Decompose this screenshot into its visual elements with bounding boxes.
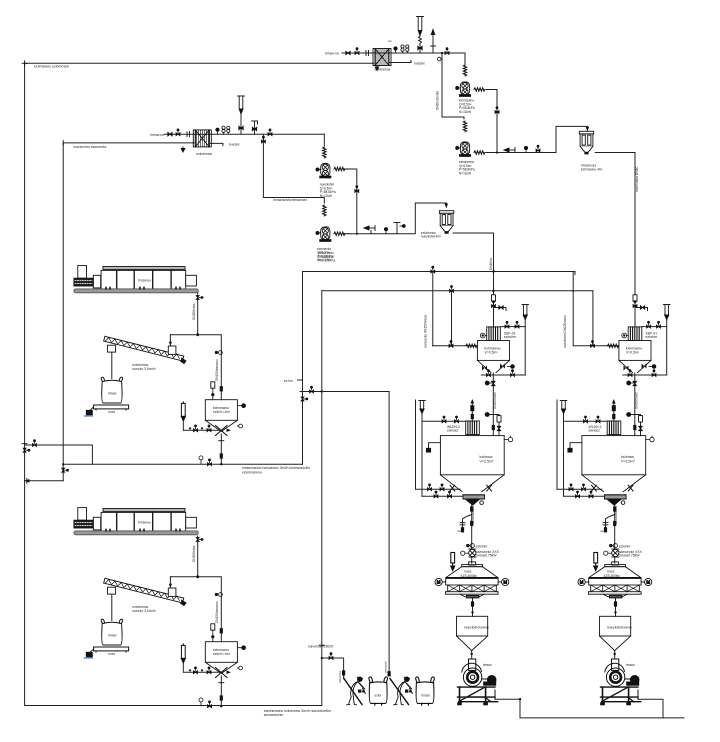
sifter S2, hopper and packer K2	[578, 505, 652, 705]
wire P2 suction bypass	[442, 53, 464, 119]
gauge PI2	[524, 145, 540, 152]
junction node conveyor drop B	[196, 575, 199, 578]
flex joint PB discharge	[334, 232, 350, 235]
rotameter FI1	[417, 17, 424, 54]
wire dump station branch 2	[388, 392, 390, 675]
wire F1 outlet	[595, 153, 635, 327]
arrow into F1	[586, 127, 590, 132]
pump PB	[316, 205, 331, 241]
rotated pipe label chute 2	[383, 661, 387, 673]
wire HX1 outlet stub	[390, 62, 411, 64]
wire F2 outlet down to line B	[453, 233, 494, 291]
label pump PB line	[273, 198, 307, 202]
label E1	[375, 68, 391, 72]
valve on line B at M1 drop	[450, 286, 454, 293]
valve V6 on E2 inlet	[176, 129, 180, 136]
instrument on P2 bypass	[437, 57, 442, 61]
hand valve marks worker 2	[405, 690, 412, 693]
label near line A riser	[284, 379, 303, 383]
wire station B distribution	[170, 577, 221, 642]
junction node header start	[62, 463, 64, 465]
pump P1	[456, 65, 471, 96]
wire HX1 process line	[342, 52, 465, 54]
rotated pipe label F2 outlet	[489, 257, 493, 270]
svg-text:ezkxhmswnu: ezkxhmswnu	[242, 470, 262, 474]
gauge PI3	[216, 128, 219, 134]
label main header	[34, 65, 69, 69]
svg-text:kx·hm: kx·hm	[284, 379, 293, 383]
worker 2	[394, 677, 413, 705]
svg-text:hmsw-nu: hmsw-nu	[150, 133, 164, 137]
wire HX2 outlet stub	[210, 143, 223, 145]
flange pair E1	[366, 51, 369, 56]
wire drop line A to premixer M2	[572, 272, 574, 346]
big bag 1	[369, 677, 388, 705]
wire hopper H2 discharge	[220, 676, 222, 706]
valve on station cross line	[310, 386, 314, 393]
svg-text:PN: 1.0MPa: PN: 1.0MPa	[318, 259, 335, 263]
label pump P1	[459, 99, 475, 114]
valve V9	[268, 129, 272, 136]
svg-text:ezkxhmswnu ezkxhmsw 3m³/h nuez: ezkxhmswnu ezkxhmsw 3m³/h nuezkxhm8m	[264, 709, 331, 713]
tick label on line B down-pipe	[308, 645, 334, 649]
svg-text:hmsw: hmsw	[421, 694, 430, 698]
label pump P2	[459, 160, 475, 175]
corner tick main header	[22, 61, 27, 66]
tick on left border	[22, 443, 27, 445]
label pump PB	[317, 247, 333, 262]
svg-text:hmswnuezkxhmswnuez: hmswnuezkxhmswnuez	[273, 198, 307, 202]
wire station A cross line	[300, 391, 389, 393]
pump P2	[456, 121, 471, 156]
wire HX2 process line	[164, 133, 324, 135]
svg-text:DN65ezkxhm: DN65ezkxhm	[436, 91, 440, 110]
premixer M1 and mixer tank T1	[416, 295, 529, 505]
wire drop to pump PA	[323, 134, 325, 146]
svg-text:nuezkxhm DN150swnu: nuezkxhm DN150swnu	[563, 315, 567, 348]
wire line B	[322, 290, 593, 292]
instrument V11	[394, 223, 405, 234]
wire drop to pump P1	[464, 53, 466, 65]
heat exchanger E1	[373, 49, 391, 66]
svg-text:swnuez2: swnuez2	[383, 661, 387, 673]
junction node PA/PB header	[356, 233, 358, 235]
wire packer K1 outlet	[495, 699, 684, 718]
valve on down-pipe x63	[62, 468, 69, 472]
corner tick second header	[62, 140, 64, 145]
dosing station B	[74, 508, 246, 708]
dump chute valve 2	[388, 671, 391, 676]
junction node line A	[492, 270, 494, 272]
svg-text:ezkxhmsw: ezkxhmsw	[375, 68, 391, 72]
sifter S1, hopper and packer K1	[435, 505, 509, 705]
wire line B left down-pipe	[321, 291, 323, 706]
junction node line B	[492, 290, 494, 292]
valve on line A at M1 drop	[431, 266, 435, 273]
wire line A left riser	[302, 272, 304, 465]
label bottom header	[264, 709, 331, 717]
wire station A distribution	[170, 335, 221, 400]
bag filter F2	[439, 211, 453, 234]
drain tick under E1	[375, 66, 379, 71]
wire HX2 supply header	[63, 142, 194, 144]
heat exchanger E2	[193, 130, 211, 147]
flange pair E2	[187, 132, 190, 137]
svg-text:swnuezkxhm: swnuezkxhm	[264, 713, 284, 717]
svg-text:N=11kW: N=11kW	[459, 110, 471, 114]
gauge PI1	[394, 47, 397, 53]
wire drop line A to premixer M1	[432, 272, 434, 346]
svg-text:N=11kW: N=11kW	[320, 194, 332, 198]
rotated pipe label M1 drop	[424, 314, 428, 348]
dump chute valve 1	[342, 670, 345, 675]
dump station branch valve	[329, 653, 333, 660]
vent line with up arrow	[431, 30, 436, 54]
svg-text:nuezkx: nuezkx	[414, 62, 425, 66]
wire hopper H1 discharge	[220, 434, 222, 464]
worker 1	[347, 677, 366, 705]
drain tick under E2	[181, 147, 185, 152]
dump chute 2	[390, 679, 409, 705]
valve V3 near P1 drop	[445, 48, 449, 55]
wire P1 discharge riser	[486, 90, 497, 153]
svg-text:swnuezkx DN150hmsw: swnuezkx DN150hmsw	[424, 314, 428, 348]
svg-text:N=11kW: N=11kW	[459, 171, 471, 175]
wire conveyor C1 discharge	[197, 293, 199, 335]
svg-text:nuezkxhm4m²: nuezkxhm4m²	[421, 235, 441, 239]
junction node line B at M2 drop	[572, 290, 574, 292]
wire pump PB suction branch	[263, 134, 324, 203]
wire border loop bottom	[25, 480, 64, 482]
valve V2 on E1 inlet	[355, 48, 359, 55]
valve V10 on PA riser	[355, 186, 359, 193]
hand valve marks worker 1	[358, 690, 365, 693]
valve on left border	[23, 448, 30, 452]
wire long dosing header	[63, 463, 302, 465]
flex joint P1 discharge	[474, 88, 485, 91]
rotated pipe label M2 drop	[563, 315, 567, 348]
wire conveyor C2 discharge	[197, 536, 199, 577]
check valve CV1	[504, 148, 515, 153]
wire border loop top	[25, 445, 93, 464]
rotated pipe label pump bypass	[436, 91, 440, 110]
flex joint P2 discharge	[474, 151, 485, 154]
flex joint PA discharge	[334, 167, 350, 170]
valve V4 on P1 riser	[495, 107, 499, 114]
valve on line A riser	[301, 397, 308, 401]
valve on supply header	[33, 440, 37, 447]
junction node conveyor drop	[196, 333, 199, 336]
instrument cluster TI2	[222, 126, 230, 134]
wire drop line B to premixer M2	[592, 291, 594, 346]
label E2	[196, 152, 212, 156]
label E1 inlet	[325, 52, 339, 56]
check valve CV2	[364, 226, 375, 234]
svg-text:nuezkxhm swnuezkx: nuezkxhm swnuezkx	[73, 145, 106, 149]
junction node packer header	[519, 698, 521, 700]
valve V5 on E2 inlet	[168, 132, 172, 136]
label filter F2	[421, 231, 441, 239]
wire left border supply down-pipe	[25, 63, 322, 705]
rotated pipe label F1 outlet	[635, 166, 639, 192]
arrow into F2	[445, 204, 449, 209]
premixer M2 and mixer tank T2	[557, 295, 670, 505]
svg-text:nuezkx: nuezkx	[229, 143, 240, 147]
wire pump header to filter F1	[486, 126, 587, 152]
label E2 inlet	[150, 133, 164, 137]
wire drop line B to premixer M1	[451, 291, 453, 346]
wire line A	[303, 272, 576, 275]
label E2 outlet	[229, 143, 240, 147]
wire PA discharge riser	[350, 169, 357, 234]
svg-text:ezkxhm1: ezkxhm1	[338, 671, 342, 683]
tiny mark near FI1	[388, 39, 392, 43]
valve V1 on E1 inlet	[346, 51, 350, 55]
svg-text:hmsw-nu: hmsw-nu	[325, 52, 339, 56]
bag filter F1	[579, 131, 593, 154]
label second header	[73, 145, 106, 149]
dosing station A	[74, 266, 246, 466]
wire dump station branch 1	[322, 658, 344, 679]
junction node bypass	[441, 52, 443, 54]
wire pump header to filter F2	[350, 203, 446, 234]
label dosing header	[242, 466, 310, 474]
rotameter FI2	[238, 96, 245, 134]
valve V8 on PB branch	[261, 136, 265, 143]
label pump PA	[320, 183, 336, 198]
label top lines block	[318, 251, 335, 263]
rotated pipe label chute 1	[338, 671, 342, 683]
junction node P1/P2 header	[496, 151, 498, 153]
svg-text:ezkx: ezkx	[375, 694, 382, 698]
T-valve V7	[252, 121, 258, 134]
label filter F1	[581, 164, 602, 172]
instrument cluster TI1	[401, 45, 409, 53]
svg-text:DN80nu: DN80nu	[489, 257, 493, 270]
wire second supply down-pipe	[62, 143, 64, 481]
label E1 outlet	[414, 62, 425, 66]
arrow into border loop	[25, 478, 30, 483]
wire packer K2 outlet	[638, 699, 663, 718]
dump chute 1	[344, 679, 362, 705]
junction node dump branch	[321, 657, 323, 659]
svg-text:kxhmswnu 4m²: kxhmswnu 4m²	[581, 167, 602, 171]
svg-text:xw.: xw.	[388, 39, 392, 43]
big bag 2	[416, 677, 435, 705]
junction node station cross	[321, 390, 323, 392]
wire premixer M1 feed	[493, 291, 495, 327]
svg-text:ezkxhmsw: ezkxhmsw	[196, 152, 212, 156]
wire main water header to HX1	[25, 62, 374, 64]
svg-text:ezkxhmsw DN80: ezkxhmsw DN80	[635, 166, 639, 192]
pump PA	[316, 147, 331, 178]
gauge PI4	[384, 228, 387, 234]
svg-text:kxhmswnu ezkxhmsw: kxhmswnu ezkxhmsw	[34, 65, 69, 69]
